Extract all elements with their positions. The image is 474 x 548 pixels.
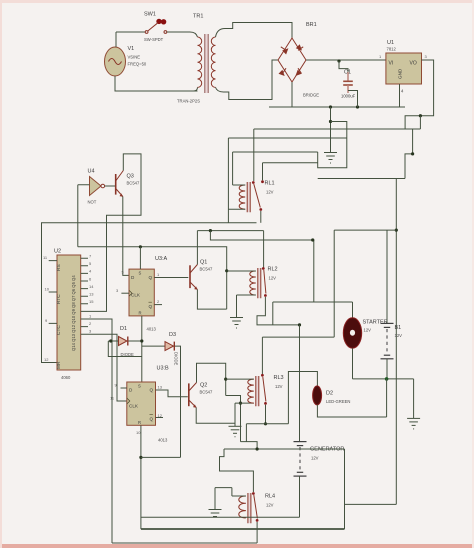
wire tap to RL3 coil bottom — [226, 396, 241, 442]
svg-text:D3: D3 — [169, 332, 176, 338]
wire RL3 coil top lead — [226, 378, 254, 380]
wire RL4 feed long — [224, 448, 345, 450]
node long vertical top feed — [395, 229, 398, 232]
not gate U4 — [88, 169, 105, 205]
ground RL4 — [209, 510, 222, 517]
svg-text:B1: B1 — [395, 325, 402, 331]
svg-text:U3:B: U3:B — [157, 366, 170, 372]
wire center column — [299, 325, 301, 442]
battery B1 — [381, 230, 403, 379]
svg-text:VI: VI — [389, 61, 394, 67]
right pin stubs — [81, 258, 88, 334]
wire U3:A R to D1/D3/U3:B — [141, 316, 143, 382]
wire U1 VO down right side — [405, 60, 434, 129]
node U3:B R junction — [139, 456, 142, 459]
wire bottom frame upper — [141, 528, 345, 530]
wire generator bottom rail — [141, 516, 300, 518]
wire RL3 pole out — [265, 405, 267, 424]
node stem — [329, 120, 332, 123]
svg-text:Q: Q — [150, 388, 154, 393]
wire RL3 coil bottom lead — [235, 402, 254, 404]
svg-text:BC547: BC547 — [200, 267, 213, 272]
wire SW1 to TR1 — [167, 31, 190, 33]
switch SW1 — [116, 12, 167, 43]
node D1 cathode junction — [140, 339, 143, 342]
svg-text:GND: GND — [398, 68, 403, 79]
wire stem branch — [318, 122, 347, 168]
wire +12V horizontal to RL1 common — [254, 128, 421, 130]
svg-text:Q: Q — [149, 275, 153, 280]
wire Q1 emitter to RL2 coil — [197, 290, 226, 310]
wire RL2 coil bottom to ground — [237, 295, 256, 318]
svg-text:U4: U4 — [88, 169, 95, 175]
wire D3 cathode down — [175, 346, 181, 457]
motor STARTER — [343, 302, 387, 379]
svg-text:STARTER: STARTER — [363, 320, 388, 326]
V1 sine source — [105, 46, 147, 76]
svg-text:RL3: RL3 — [274, 375, 284, 381]
wire bridge bottom vertex to ground rail — [291, 82, 293, 107]
wire right drop to long vertical — [318, 178, 405, 180]
ground rail — [269, 106, 405, 108]
node RL3 coil top tap — [224, 378, 227, 381]
svg-text:4013: 4013 — [147, 327, 157, 332]
svg-text:CLK: CLK — [129, 404, 139, 409]
svg-text:Q1: Q1 — [200, 260, 207, 266]
node RL3 out — [264, 422, 267, 425]
wire +12V feed step — [419, 116, 421, 129]
node RL2 out to center — [298, 323, 301, 326]
wire Q2 collector loop — [197, 363, 226, 395]
wire main left bus — [42, 223, 257, 363]
wire bottom frame lower — [112, 542, 257, 544]
svg-text:BC547: BC547 — [127, 181, 140, 186]
svg-text:D1: D1 — [120, 326, 127, 332]
wire U4 output to Q3 base — [105, 185, 116, 187]
node RL2 coil tap — [225, 269, 228, 272]
wire RL1 throw top — [262, 163, 264, 180]
wire RL3 common up — [261, 337, 263, 374]
wire Q3 emitter down to U3:A D — [123, 197, 129, 276]
wire RL1 common up — [253, 129, 255, 181]
wire bus step down — [227, 138, 229, 223]
wire Q3 collector loop — [88, 154, 141, 312]
svg-text:SW-SPDT: SW-SPDT — [144, 37, 164, 42]
svg-text:RS: RS — [56, 264, 62, 271]
wire Q1 collector up — [196, 231, 198, 265]
wire RL4 coil top to ground — [215, 488, 246, 510]
node rail-330 — [329, 105, 332, 108]
svg-text:12V: 12V — [311, 456, 319, 461]
wire branch to RL3/B1 — [334, 229, 396, 231]
node U3:A S tap — [139, 245, 142, 248]
ground Q2/RL3 — [229, 403, 242, 437]
wire RL4 pole to bottom rail — [256, 522, 258, 543]
wire U2 pin to U3:B clk — [88, 334, 127, 401]
svg-text:7812: 7812 — [387, 47, 397, 52]
svg-text:CLK: CLK — [131, 293, 141, 298]
svg-text:RTC: RTC — [56, 294, 62, 304]
battery GENERATOR — [294, 442, 345, 518]
svg-text:Q2: Q2 — [200, 383, 207, 389]
svg-text:4013: 4013 — [158, 438, 168, 443]
svg-text:15: 15 — [89, 299, 94, 304]
led D2 — [313, 386, 351, 405]
wire V1 bottom to TR1 primary — [115, 76, 198, 91]
wire staircase down to RL4 common — [220, 449, 254, 492]
svg-text:R: R — [138, 420, 141, 425]
svg-text:NOT: NOT — [88, 200, 97, 205]
node RL3 coil bottom — [239, 402, 242, 405]
svg-text:12V: 12V — [275, 384, 283, 389]
node D1 anode — [109, 339, 112, 342]
wire right column bottom link — [345, 503, 397, 505]
capacitor C1 — [339, 61, 358, 107]
left pin stubs — [49, 261, 57, 324]
ground symbol near C1 — [324, 153, 337, 164]
svg-text:R: R — [139, 311, 142, 316]
svg-text:4060: 4060 — [61, 375, 71, 380]
svg-text:DIODE: DIODE — [174, 352, 179, 365]
ground right — [407, 418, 420, 429]
svg-text:12V: 12V — [266, 190, 274, 195]
svg-text:S: S — [139, 271, 142, 276]
node right step — [411, 152, 414, 155]
svg-text:TRAN-2P2S: TRAN-2P2S — [177, 99, 200, 104]
svg-text:TR1: TR1 — [193, 14, 203, 20]
wire R junction to D3 line — [141, 456, 181, 458]
wire right step down — [405, 129, 413, 179]
wire staircase to RL4 — [241, 442, 258, 449]
transistor Q1 — [190, 260, 213, 290]
svg-text:U3:A: U3:A — [155, 256, 168, 262]
svg-text:RL1: RL1 — [265, 181, 275, 187]
wire RL2 coil top lead — [227, 270, 256, 272]
node mid bus — [209, 229, 212, 232]
svg-text:LED-GREEN: LED-GREEN — [326, 399, 350, 404]
wire D1 cathode — [129, 340, 142, 342]
wire RL1 coil-top feed — [233, 151, 318, 153]
relay RL4 — [239, 492, 275, 523]
wire second supply line — [228, 137, 346, 139]
wire D2 bottom — [317, 379, 386, 417]
node bridge DC+ / C1 junction — [337, 59, 340, 62]
svg-text:10: 10 — [45, 287, 50, 292]
diode D3 — [165, 332, 179, 365]
wire stem from rail — [330, 107, 332, 153]
wire right column riser — [344, 449, 346, 529]
wire RL1 coil top lead — [233, 152, 246, 185]
svg-text:FREQ=50: FREQ=50 — [128, 62, 147, 67]
wire RL2 pole out staircase — [257, 297, 300, 325]
svg-text:RL2: RL2 — [268, 267, 278, 273]
wire U3:A S up — [139, 247, 141, 269]
wire starter feed top — [273, 301, 353, 303]
wire RL1 bottom contact to bus — [260, 211, 262, 223]
wire RL1 coil bottom lead — [228, 208, 245, 210]
wire long right vertical — [395, 179, 397, 505]
wire to right ground — [413, 379, 415, 419]
svg-text:D2: D2 — [326, 391, 333, 397]
svg-text:Q3: Q3 — [127, 174, 134, 180]
svg-text:12V: 12V — [266, 503, 274, 508]
contacts — [252, 181, 255, 184]
wire starter feed riser — [272, 302, 274, 325]
wire mid bus — [197, 230, 263, 232]
bridge BR1 — [278, 22, 319, 98]
wire V1 top — [115, 32, 117, 47]
wire up to D2 — [288, 372, 317, 424]
wire RL3 out horizontal — [246, 423, 288, 425]
wire TR1 secondary bottom to bridge left — [216, 60, 279, 100]
svg-text:V1: V1 — [128, 46, 135, 52]
svg-text:14: 14 — [89, 284, 94, 289]
wire bridge right vertex to U1 VI — [306, 59, 386, 61]
svg-text:13: 13 — [158, 385, 163, 390]
svg-text:12V: 12V — [395, 333, 403, 338]
wire Q2 emitter to ground — [196, 408, 235, 424]
wire D3 anode feed — [142, 345, 165, 347]
node battery junction — [385, 377, 389, 381]
svg-text:U1: U1 — [387, 40, 394, 46]
coil — [239, 185, 245, 209]
wire U2 pin to D1 — [88, 319, 112, 543]
wire lower tap — [108, 341, 142, 357]
svg-text:MR: MR — [56, 361, 62, 369]
ground RL2 — [230, 318, 243, 329]
svg-text:BR1: BR1 — [306, 22, 317, 28]
svg-text:Q: Q — [150, 417, 154, 422]
svg-text:DIODE: DIODE — [121, 352, 134, 357]
svg-text:RL4: RL4 — [265, 494, 275, 500]
wire U3:B Q to Q2 base — [156, 390, 188, 397]
svg-text:BC547: BC547 — [200, 390, 213, 395]
node VO corner — [419, 114, 422, 117]
wire battery bus — [353, 378, 414, 380]
svg-text:Q14 Q13 Q12 Q10 Q9 Q8 Q7 Q6 Q5: Q14 Q13 Q12 Q10 Q9 Q8 Q7 Q6 Q5 Q4 — [71, 275, 76, 351]
svg-text:13: 13 — [89, 292, 94, 297]
svg-text:BRIDGE: BRIDGE — [303, 93, 319, 98]
svg-text:1000uF: 1000uF — [341, 94, 356, 99]
svg-text:12: 12 — [44, 357, 49, 362]
wire down branch — [245, 424, 247, 442]
node staircase — [256, 447, 259, 450]
svg-text:VO: VO — [410, 61, 417, 67]
wire RL1 throw feed — [263, 162, 318, 164]
svg-text:12V: 12V — [364, 328, 372, 333]
diode D1 — [119, 326, 134, 357]
svg-text:U2: U2 — [54, 249, 61, 255]
transistor Q2 — [189, 383, 213, 408]
wire U1 GND to rail — [399, 84, 401, 107]
wire U4 feed lower — [78, 247, 227, 309]
svg-text:12V: 12V — [269, 276, 277, 281]
wire branch to RL2 common — [210, 231, 313, 302]
svg-text:Q: Q — [149, 304, 153, 309]
wire RL3 common feed — [262, 230, 334, 337]
svg-text:CTC: CTC — [56, 325, 62, 335]
transformer TR1 — [115, 14, 216, 104]
svg-text:VSINE: VSINE — [128, 55, 141, 60]
wire U3:A Q to Q1 base — [154, 277, 188, 279]
wire U4 input — [78, 185, 90, 247]
node rail-357 — [356, 105, 359, 108]
transistor Q3 — [116, 171, 140, 197]
svg-text:SW1: SW1 — [144, 12, 156, 18]
svg-text:S: S — [138, 384, 141, 389]
regulator U1 7812 — [379, 40, 428, 94]
wire TR1 secondary top to bridge — [216, 23, 293, 39]
wire D1 anode feed — [108, 340, 118, 342]
wire U3:B R down — [140, 425, 142, 529]
